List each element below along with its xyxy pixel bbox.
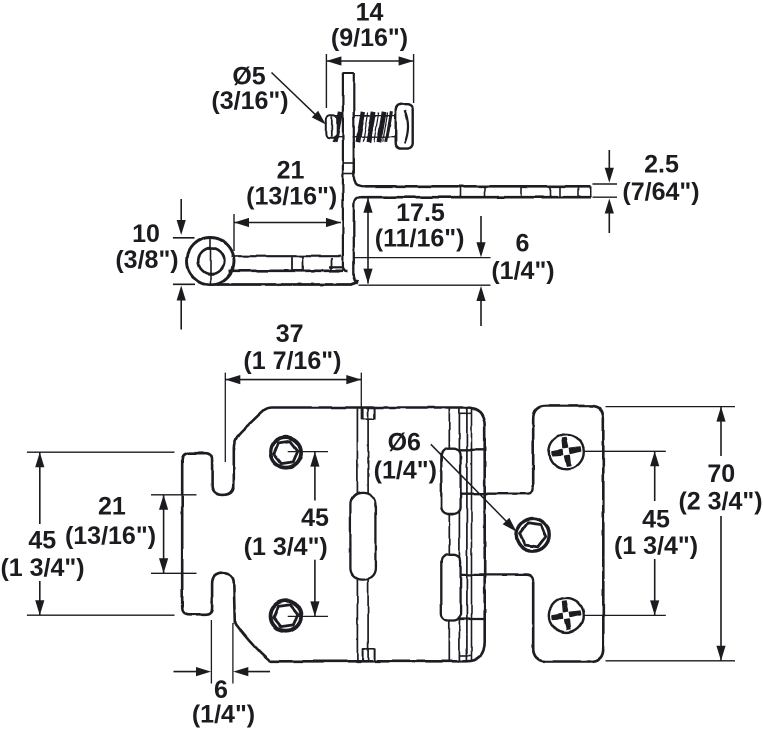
dimension 70 line	[716, 407, 725, 661]
svg-text:(7/64"): (7/64")	[622, 178, 699, 206]
dimension 6 label (bottom view)	[192, 676, 255, 729]
dimension 45 right line	[650, 451, 659, 615]
dimension 45 right extension top	[584, 450, 666, 452]
dimension 6 extension bottom	[359, 284, 491, 286]
cranked leaf end line	[466, 408, 468, 662]
right pivot tick bottom	[459, 655, 470, 657]
svg-text:17.5: 17.5	[396, 199, 445, 227]
dimension 10 label	[115, 220, 178, 274]
dimension 45 middle line	[310, 452, 319, 617]
dimension 45 left extension bottom	[27, 614, 175, 616]
hex hole upper (left plate)	[271, 437, 302, 468]
knuckle leaf top edge	[232, 255, 342, 257]
dimension 2.5 tick bottom	[593, 196, 618, 198]
phillips screw lower	[549, 598, 584, 633]
mounting tab right edge mid	[354, 142, 365, 186]
flange tick 5	[577, 187, 579, 197]
right plate neck top edge	[460, 487, 533, 494]
dimension 6 extension top	[355, 257, 491, 259]
diameter 5 label	[211, 63, 288, 116]
left pivot tick top 2	[374, 408, 376, 420]
svg-text:(1/4"): (1/4")	[491, 257, 554, 285]
svg-text:70: 70	[707, 460, 735, 488]
tab right edge lower	[354, 197, 362, 284]
svg-text:45: 45	[301, 504, 329, 532]
knuckle leaf end line	[210, 238, 212, 284]
mounting tab white band	[344, 73, 353, 180]
dimension 45 middle extension top	[288, 451, 328, 453]
dimension 21 extension	[233, 214, 235, 251]
pivot crossbar lower	[459, 618, 484, 620]
screw thread	[334, 112, 396, 142]
dimension 45 left extension top	[27, 451, 175, 453]
hinge knuckle outer circle (top view)	[187, 238, 234, 285]
flange end cap	[590, 186, 592, 197]
screw head	[396, 104, 413, 148]
pivot crossbar upper	[459, 449, 484, 451]
dimension 2.5 arrow down	[605, 150, 614, 183]
dimension 2.5 label	[622, 151, 699, 207]
hinge knuckle pin bore	[198, 248, 224, 274]
right pivot line 1	[448, 408, 450, 662]
svg-text:37: 37	[276, 320, 304, 348]
flange tick 3	[520, 187, 522, 197]
leader arrow diameter 5	[272, 73, 326, 125]
knuckle leaf tick 1	[291, 257, 293, 270]
dimension 14 extension right	[413, 54, 415, 103]
phillips screw upper	[549, 434, 584, 469]
svg-text:(13/16"): (13/16")	[246, 183, 337, 211]
dimension 45 left label	[0, 526, 84, 582]
svg-text:14: 14	[356, 0, 384, 27]
flange tick 4	[550, 187, 552, 197]
dimension 37 extension right	[360, 373, 362, 420]
flange top edge	[364, 185, 590, 188]
dimension 21 line (bottom view)	[159, 495, 168, 574]
dimension 6 arrow up	[476, 286, 485, 326]
screw tip cap	[326, 115, 337, 137]
dimension 21 extension bottom (bottom view)	[151, 572, 197, 574]
flange tick 4b	[559, 187, 561, 197]
dimension 45 middle label	[244, 504, 329, 561]
left pivot tick top 1	[362, 408, 364, 420]
svg-text:(13/16"): (13/16")	[65, 522, 156, 550]
left hinge plate outline (bottom view)	[182, 408, 485, 662]
dimension 14 line	[326, 56, 413, 65]
flange bottom edge	[362, 196, 591, 199]
right pivot tick top	[459, 412, 470, 414]
knuckle leaf tick 3	[331, 258, 333, 270]
svg-text:10: 10	[132, 220, 160, 248]
tab tick 2	[343, 173, 354, 175]
svg-text:(3/16"): (3/16")	[211, 87, 288, 115]
dimension 6 extension left (bottom view)	[210, 620, 212, 684]
dimension 10 arrow down	[177, 199, 186, 235]
svg-text:(9/16"): (9/16")	[331, 24, 408, 52]
left pivot tick bar top	[363, 418, 375, 420]
svg-text:21: 21	[98, 493, 126, 521]
left pivot line 2	[367, 408, 369, 662]
dimension 6 arrow down	[476, 216, 485, 257]
dimension 14 extension left	[325, 54, 327, 108]
mounting tab left edge	[343, 73, 348, 271]
right hinge plate outline	[533, 406, 603, 662]
svg-text:(1 3/4"): (1 3/4")	[244, 533, 328, 561]
right pivot line 2	[458, 408, 460, 662]
dimension 45 left line	[35, 452, 44, 615]
hex hole lower (left plate)	[271, 601, 302, 632]
svg-text:(1/4"): (1/4")	[192, 701, 255, 729]
dimension 37 label	[243, 320, 341, 375]
dimension 45 right label	[614, 506, 698, 561]
dimension 6 extension right (bottom view)	[232, 623, 234, 684]
svg-text:45: 45	[28, 526, 56, 554]
left pivot barrel	[350, 493, 375, 580]
dimension 17.5 label	[375, 199, 465, 253]
dimension 10 arrow up	[177, 286, 186, 330]
dimension 6 label (top view)	[491, 230, 554, 286]
dimension 2.5 arrow up	[605, 199, 614, 234]
svg-text:(3/8"): (3/8")	[115, 246, 178, 274]
dimension 70 label	[678, 460, 762, 516]
flange tick 1	[459, 187, 461, 197]
left pivot tick bottom 2	[374, 649, 376, 661]
dimension 21 label (top view)	[246, 157, 337, 211]
dimension 70 extension top	[606, 406, 736, 408]
mounting tab top cap	[343, 72, 354, 74]
right plate neck bottom edge	[460, 575, 533, 582]
right pivot knuckle upper	[441, 448, 460, 514]
svg-text:(11/16"): (11/16")	[375, 225, 465, 253]
dimension 17.5 line	[363, 198, 372, 284]
flange tick 2	[484, 187, 486, 197]
svg-text:(1 7/16"): (1 7/16")	[243, 347, 341, 375]
left pivot tick bottom 1	[362, 649, 364, 661]
cranked leaf end line 2	[471, 408, 473, 662]
dimension 21 label (bottom view)	[65, 493, 156, 551]
dimension 21 extension top (bottom view)	[151, 494, 197, 496]
left pivot tick bar bottom	[363, 648, 375, 650]
dimension 45 middle extension bottom	[288, 615, 328, 617]
left pivot line 1	[356, 408, 358, 662]
mounting tab right edge upper	[353, 73, 355, 176]
svg-text:6: 6	[516, 230, 530, 258]
svg-text:(1/4"): (1/4")	[374, 457, 437, 485]
dimension 10 tick bottom	[173, 283, 195, 285]
knuckle leaf tick 2	[302, 257, 304, 270]
svg-text:(1 3/4"): (1 3/4")	[0, 554, 84, 582]
dimension 37 extension left	[224, 373, 226, 462]
tab tick 1	[343, 162, 354, 164]
svg-text:Ø6: Ø6	[388, 429, 421, 457]
dimension 6 arrow right	[233, 667, 270, 676]
dimension 6 arrow left	[174, 667, 212, 676]
right pivot knuckle lower	[441, 555, 460, 621]
svg-text:(1 3/4"): (1 3/4")	[614, 532, 698, 560]
dimension 21 line (top view)	[234, 218, 341, 227]
diameter 6 label	[374, 429, 437, 485]
svg-text:21: 21	[277, 157, 305, 185]
leader arrow diameter 6	[431, 444, 517, 531]
dimension 70 extension bottom	[606, 660, 736, 662]
svg-text:2.5: 2.5	[644, 151, 679, 179]
svg-text:(2 3/4"): (2 3/4")	[678, 488, 762, 516]
dimension 45 right extension bottom	[584, 614, 666, 616]
dimension 10 tick top	[173, 237, 195, 239]
svg-text:45: 45	[642, 506, 670, 534]
dimension 2.5 tick top	[593, 183, 618, 185]
dimension 37 line	[225, 375, 361, 384]
dimension 14 label	[331, 0, 408, 52]
leaf bottom outer edge	[213, 281, 358, 285]
knuckle leaf end segment	[330, 266, 344, 268]
knuckle leaf bottom edge	[229, 269, 343, 272]
center hex hole (dowel)	[516, 518, 549, 551]
